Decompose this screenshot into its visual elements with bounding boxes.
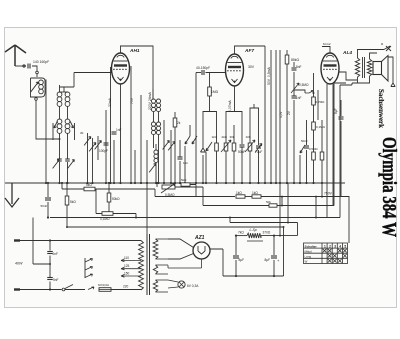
wire	[140, 95, 142, 183]
capacitor 5nF lower	[49, 256, 51, 278]
trimmer capacitor	[163, 120, 165, 183]
wire loop U2	[226, 112, 242, 145]
svg-text:0,5MΩ: 0,5MΩ	[309, 147, 318, 151]
trimmer capacitor 3-30pF	[87, 133, 89, 183]
svg-text:50k: 50k	[266, 200, 271, 204]
resistor 50kOhm	[108, 183, 110, 193]
resistor 1MOhm grid leak	[209, 73, 211, 88]
tuned circuit L1/C1 (antenna circuit)	[31, 78, 46, 97]
wire	[154, 189, 156, 197]
svg-text:85kΩ: 85kΩ	[291, 58, 299, 62]
svg-text:32mA: 32mA	[108, 97, 112, 107]
svg-text:125: 125	[124, 264, 130, 268]
wire tuned circuit to transformer center	[36, 100, 60, 139]
svg-text:1MΩ: 1MΩ	[211, 90, 219, 94]
svg-text:Olympia 384 W: Olympia 384 W	[378, 137, 400, 237]
svg-text:AZ1: AZ1	[194, 235, 205, 241]
trimmer capacitor	[97, 136, 99, 160]
svg-text:5kΩ: 5kΩ	[86, 183, 92, 187]
wire	[113, 140, 115, 183]
terminal	[35, 98, 38, 101]
potentiometer 100pF	[248, 143, 252, 151]
resistor 0,1MOhm horizontal	[102, 212, 113, 216]
wire plate supply line 750V	[155, 196, 235, 198]
tube AL4	[321, 53, 339, 84]
wire	[317, 90, 319, 120]
wire	[287, 183, 289, 223]
transformer T1b wave band coil	[57, 119, 62, 124]
wire	[62, 183, 84, 189]
wire	[175, 187, 203, 206]
wire top link	[45, 80, 48, 183]
mains line N	[14, 289, 62, 291]
wire	[340, 99, 342, 101]
terminal Y	[391, 83, 395, 87]
svg-text:2k: 2k	[177, 121, 181, 125]
wire AL4 top cap	[322, 47, 330, 54]
switch contact	[300, 145, 305, 153]
wire	[283, 227, 285, 276]
wire	[279, 183, 281, 236]
svg-text:5: 5	[344, 244, 346, 248]
resistor 0,7MOhm	[321, 120, 323, 152]
wire	[261, 197, 349, 244]
potentiometer 2kOhm	[224, 143, 228, 151]
svg-text:70V: 70V	[130, 97, 134, 104]
trimmer capacitor right	[65, 158, 70, 160]
wire screen line	[203, 205, 269, 207]
voltage selector	[84, 258, 86, 278]
wire	[146, 140, 148, 183]
wire AH1 side electrode	[110, 67, 112, 183]
svg-text:1kΩ: 1kΩ	[236, 191, 242, 195]
capacitor 50nF	[47, 183, 49, 197]
wire	[358, 50, 385, 59]
wire	[315, 197, 317, 218]
rectifier tube AZ1	[193, 242, 210, 259]
capacitor 1nF	[112, 131, 117, 133]
wire	[190, 185, 196, 197]
mains switch	[62, 288, 65, 291]
resistor 5kOhm horizontal	[84, 187, 95, 191]
wire AL4 grid	[294, 90, 305, 93]
wire AL4 plate to output transformer	[339, 72, 357, 80]
wire	[184, 146, 186, 183]
wire	[105, 110, 107, 183]
svg-text:1nF: 1nF	[116, 128, 122, 132]
transformer T2 winding B	[151, 122, 155, 126]
wire AZ1 cathode out	[210, 249, 223, 276]
contact arrow	[88, 287, 94, 290]
wire grid junction	[313, 92, 315, 94]
capacitor antenna 140/160pF	[27, 64, 29, 69]
output transformer T-out primary	[355, 58, 359, 77]
svg-text:5nF: 5nF	[53, 278, 59, 282]
trimmer capacitor 70uF	[256, 145, 261, 147]
wire	[277, 83, 346, 206]
svg-text:4,5V: 4,5V	[279, 111, 283, 118]
svg-text:2kΩ: 2kΩ	[222, 135, 228, 139]
wire	[95, 188, 155, 190]
padder capacitor 10nF	[179, 140, 181, 157]
wire screen feed	[264, 46, 266, 183]
svg-text:1: 1	[324, 244, 326, 248]
wire cathode line	[50, 85, 340, 218]
trimmer capacitor	[92, 138, 94, 183]
svg-text:5kΩ: 5kΩ	[181, 178, 187, 182]
resistor 1kOhm	[252, 195, 261, 198]
wire cap to tuned circuit	[32, 66, 37, 71]
resistor 0,7MOhm upper	[313, 73, 315, 97]
wire antenna to coupling cap	[15, 65, 26, 67]
wire AH1 cathode	[120, 84, 122, 183]
switch a	[384, 46, 391, 51]
wire	[134, 150, 136, 183]
svg-text:2nF: 2nF	[53, 252, 59, 256]
ground bus	[5, 182, 345, 184]
svg-text:a: a	[381, 42, 383, 46]
wire filter bottom	[223, 275, 284, 277]
capacitor 8uF second	[273, 236, 275, 255]
trimmer on oscillator coil	[149, 164, 156, 173]
resistor 50kOhm	[269, 204, 277, 207]
svg-text:30: 30	[80, 131, 84, 135]
resistor 0,1MOhm	[312, 122, 316, 130]
svg-text:50µF: 50µF	[238, 150, 245, 154]
fuse 60/0,6A	[99, 288, 111, 292]
svg-text:50kΩ: 50kΩ	[112, 197, 120, 201]
wire tap 110	[121, 259, 141, 262]
power transformer secondary winding 3	[153, 280, 157, 292]
svg-text:40W: 40W	[15, 262, 23, 266]
svg-text:150: 150	[124, 271, 130, 275]
resistor	[312, 152, 316, 160]
capacitor 8uF	[235, 236, 237, 255]
power transformer primary	[139, 241, 144, 291]
svg-text:370Ω: 370Ω	[263, 231, 271, 235]
power transformer secondary HV winding	[153, 239, 158, 259]
wire AF7 top cap	[235, 46, 266, 54]
capacitor 5nF	[293, 62, 295, 67]
svg-text:Sachsenwerk: Sachsenwerk	[377, 89, 385, 128]
wire	[96, 189, 102, 214]
svg-text:L-Sp: L-Sp	[250, 228, 257, 232]
svg-text:0,1MΩ: 0,1MΩ	[316, 125, 326, 129]
svg-text:Lang: Lang	[305, 255, 312, 259]
svg-text:AL4: AL4	[342, 50, 352, 56]
svg-text:100pF: 100pF	[99, 149, 108, 153]
switch contact	[206, 142, 212, 151]
capacitor 1nF	[292, 95, 297, 97]
power transformer core	[146, 234, 148, 295]
node	[36, 71, 39, 74]
capacitor 50uF	[240, 144, 245, 146]
potentiometer 0,5MOhm	[156, 183, 158, 187]
wire field winding down	[340, 83, 358, 85]
svg-text:1nF: 1nF	[296, 96, 302, 100]
wire transformer secondary bottom	[358, 76, 370, 83]
antenna	[5, 45, 26, 66]
svg-text:8µF: 8µF	[334, 108, 338, 114]
wire heater	[168, 259, 202, 268]
svg-text:50nF: 50nF	[301, 139, 308, 143]
wire	[275, 50, 277, 183]
transformer T1 antenna coil	[57, 92, 62, 97]
trimmer capacitor left	[57, 158, 62, 160]
wire	[33, 218, 50, 265]
wire	[195, 73, 197, 184]
resistor 5kOhm	[66, 183, 68, 196]
wire AF7 cathode	[234, 86, 236, 112]
wire AH1 screen	[130, 66, 132, 183]
wire	[230, 218, 298, 236]
resistor 85kOhm	[286, 50, 288, 55]
svg-text:50nF: 50nF	[41, 204, 48, 208]
svg-text:0,7MΩ: 0,7MΩ	[316, 100, 326, 104]
wire backbias line	[67, 226, 284, 228]
svg-text:W: W	[305, 260, 308, 264]
node antenna junction	[23, 65, 25, 67]
svg-text:7kΩ: 7kΩ	[238, 231, 244, 235]
wire	[281, 197, 283, 206]
svg-text:220: 220	[123, 285, 129, 289]
band switch contact right	[70, 121, 74, 128]
svg-text:3: 3	[334, 244, 336, 248]
svg-text:30V: 30V	[248, 65, 255, 69]
resistor 1kOhm	[215, 143, 219, 151]
svg-text:0,07mA: 0,07mA	[228, 100, 232, 112]
svg-text:10n: 10n	[183, 161, 188, 165]
wire	[59, 85, 61, 92]
wire AZ1 anode feed	[168, 239, 194, 248]
svg-text:AF7: AF7	[244, 48, 254, 54]
svg-text:6V 0,3A: 6V 0,3A	[187, 284, 199, 288]
table X marks	[323, 249, 327, 253]
band switch contact left	[54, 121, 58, 128]
wire	[370, 53, 378, 59]
svg-text:6O/0,6A: 6O/0,6A	[98, 283, 109, 287]
svg-text:100: 100	[246, 135, 251, 139]
svg-text:40-150pF: 40-150pF	[196, 66, 210, 70]
wire speaker return	[388, 57, 393, 83]
wire	[146, 183, 148, 234]
wire	[168, 280, 178, 282]
svg-text:5nF: 5nF	[296, 65, 302, 69]
tube AF7	[226, 54, 244, 86]
wire AL4 cathode	[326, 84, 328, 217]
resistor 2kOhm	[174, 112, 176, 118]
resistor 30kOhm	[233, 125, 235, 143]
svg-text:70µF: 70µF	[255, 150, 262, 154]
wire AL4 screen	[332, 84, 334, 206]
wire AZ1 anode feed 2	[168, 254, 194, 260]
wire	[36, 74, 38, 77]
svg-text:1kΩ: 1kΩ	[252, 191, 258, 195]
tube AH1	[112, 53, 130, 84]
wire loop U1	[203, 112, 217, 144]
svg-text:0,1MΩ: 0,1MΩ	[100, 217, 110, 221]
loudspeaker	[373, 62, 382, 75]
svg-text:5kΩ: 5kΩ	[70, 200, 76, 204]
output transformer secondary	[367, 59, 371, 76]
svg-text:110: 110	[124, 256, 129, 260]
band switch contacts oscillator	[185, 136, 190, 144]
svg-text:0,5MΩ: 0,5MΩ	[165, 193, 175, 197]
svg-text:AH1: AH1	[129, 48, 140, 54]
wire	[152, 89, 154, 99]
jack Y	[201, 139, 206, 152]
capacitor 100pF	[104, 142, 109, 144]
resistor 1kOhm	[236, 195, 245, 198]
capacitor 8uF	[340, 100, 342, 116]
volume potentiometer 0,5MOhm	[293, 80, 295, 96]
ground symbol	[5, 183, 19, 207]
resistor 5kOhm	[181, 183, 190, 186]
svg-text:50V 0,5mA: 50V 0,5mA	[267, 67, 271, 85]
svg-text:140 160pF: 140 160pF	[33, 60, 49, 64]
wire grid feed	[60, 73, 113, 93]
svg-text:1kΩ: 1kΩ	[212, 135, 218, 139]
power transformer secondary winding 2	[153, 265, 157, 274]
dial lamp 6V 0,3A	[178, 281, 185, 288]
wire AH1 top cap to oscillator section	[121, 46, 154, 99]
svg-text:8µF: 8µF	[239, 258, 245, 262]
trimmer capacitor	[170, 130, 172, 183]
svg-text:4: 4	[339, 244, 341, 248]
svg-text:Schalter: Schalter	[305, 244, 318, 248]
wire tap 150	[121, 274, 141, 277]
capacitor 50nF	[306, 120, 308, 145]
transformer T2 winding A	[151, 99, 155, 103]
svg-text:30k: 30k	[230, 135, 235, 139]
wire loop U3	[250, 104, 259, 145]
secondary taps	[156, 238, 169, 240]
svg-text:Mittel: Mittel	[305, 249, 313, 253]
output transformer core	[362, 57, 364, 78]
filter choke / speaker field L-Sp 370 Ohm	[236, 235, 247, 237]
wire AF7 grid with coupling cap 40-150pF	[196, 72, 201, 74]
wire	[279, 50, 281, 183]
switch position table	[304, 243, 348, 264]
wire	[113, 214, 136, 218]
mains line L	[14, 240, 141, 242]
svg-text:M-G2: M-G2	[323, 42, 331, 46]
wire	[270, 50, 272, 183]
capacitor 2nF	[49, 241, 51, 251]
wire	[245, 196, 252, 198]
svg-text:750V: 750V	[324, 192, 333, 196]
wire tap 125	[121, 267, 141, 270]
oscillator coil L3	[155, 144, 157, 150]
wire	[189, 125, 191, 136]
svg-text:2: 2	[329, 244, 331, 248]
svg-text:0,5MΩ: 0,5MΩ	[299, 83, 309, 87]
svg-text:8µF: 8µF	[265, 258, 271, 262]
